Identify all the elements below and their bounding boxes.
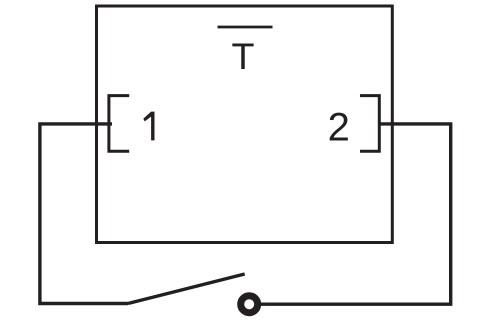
svg-text:2: 2 <box>328 105 350 149</box>
svg-text:T: T <box>232 36 255 77</box>
